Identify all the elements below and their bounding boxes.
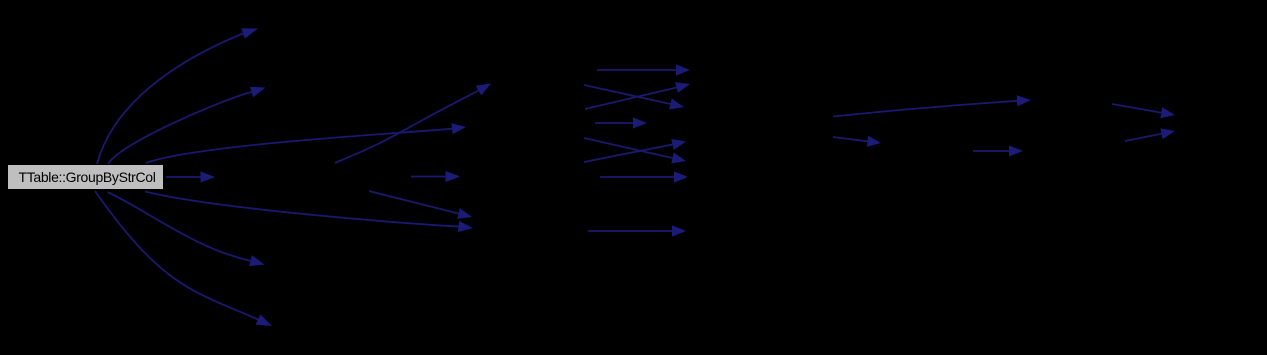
edge R1 long gentle (833, 95, 1031, 116)
edge E6 box to lower node (108, 192, 265, 266)
node TTable::GroupByStrCol label (9, 164, 166, 190)
edge R3 horizontal (973, 145, 1023, 156)
edge R2 short down (833, 136, 881, 147)
edge S1 mid diagonal (369, 191, 472, 219)
edge M7 (600, 171, 688, 182)
edge S2h short horizontal (411, 171, 460, 182)
node TTable::GroupByStrCol box (8, 165, 164, 190)
edge M4 short (595, 117, 647, 128)
edge E3 box long flat (146, 123, 466, 163)
edge E2 box to node row2 (108, 87, 266, 164)
edge M6 crossing up (584, 139, 686, 162)
edge E4 box horizontal (166, 171, 215, 182)
edge M2 crossing down (584, 85, 684, 110)
edge M5 crossing down (584, 138, 686, 164)
edge E5 box to lower right (145, 192, 473, 233)
edge M8 bottom (588, 225, 686, 236)
edge R5 up (1125, 128, 1175, 141)
edge M3 crossing up (585, 82, 690, 109)
edge R4 down (1112, 104, 1175, 118)
edge E7 box to bottom node (95, 191, 272, 326)
edge E1 box to node row1 (97, 28, 258, 164)
edge D1 long ascending (335, 84, 491, 164)
edge M1 (597, 64, 690, 75)
